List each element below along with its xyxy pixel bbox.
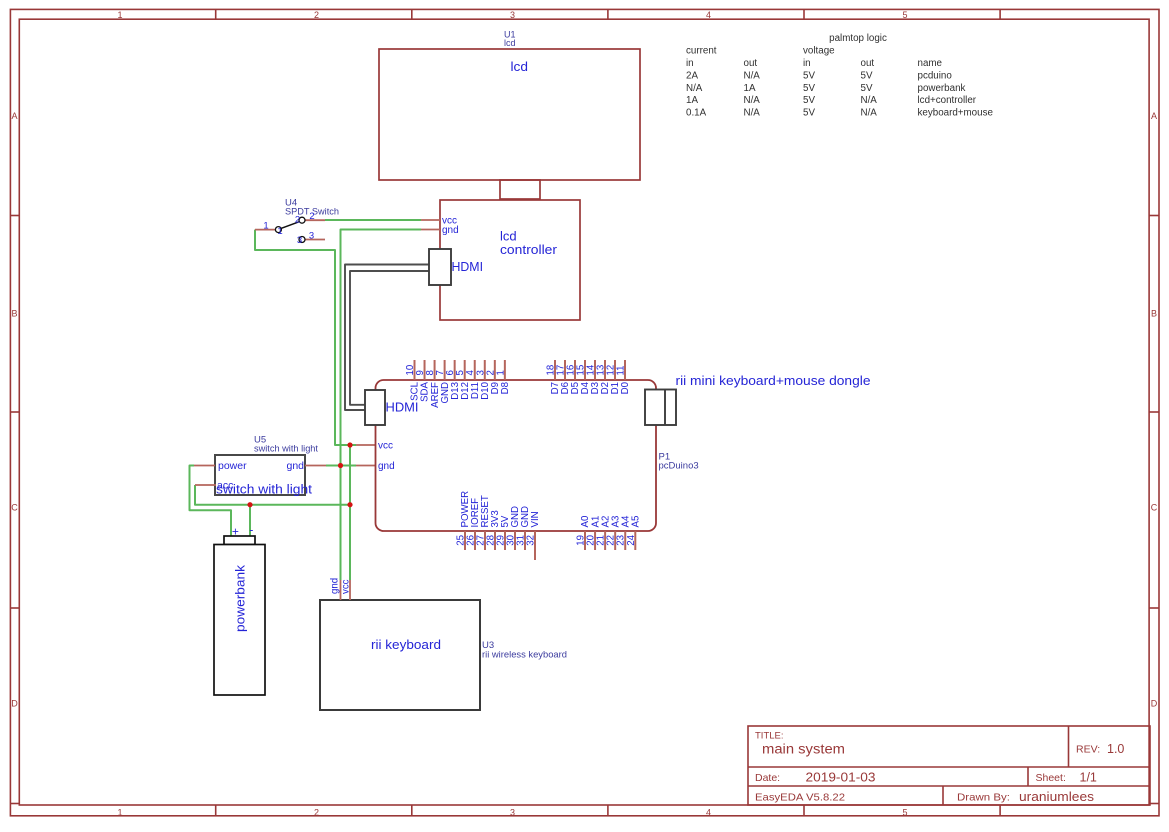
svg-text:D0: D0 xyxy=(620,381,631,394)
svg-text:TITLE:: TITLE: xyxy=(755,731,784,742)
svg-text:5V: 5V xyxy=(803,70,815,81)
svg-text:1: 1 xyxy=(117,808,122,818)
svg-text:N/A: N/A xyxy=(861,108,878,119)
svg-text:N/A: N/A xyxy=(861,95,878,106)
svg-text:1A: 1A xyxy=(686,95,698,106)
svg-text:gnd: gnd xyxy=(378,461,395,472)
svg-text:VIN: VIN xyxy=(530,511,541,527)
svg-text:rii wireless keyboard: rii wireless keyboard xyxy=(482,650,567,661)
svg-text:N/A: N/A xyxy=(744,70,761,81)
svg-text:EasyEDA V5.8.22: EasyEDA V5.8.22 xyxy=(755,792,845,804)
svg-text:N/A: N/A xyxy=(686,83,703,94)
svg-text:in: in xyxy=(686,58,694,69)
svg-text:rii mini keyboard+mouse dongle: rii mini keyboard+mouse dongle xyxy=(676,373,871,388)
svg-text:name: name xyxy=(918,58,943,69)
svg-text:2: 2 xyxy=(309,211,314,222)
svg-text:2: 2 xyxy=(314,10,319,20)
svg-text:1A: 1A xyxy=(744,83,756,94)
svg-text:4: 4 xyxy=(706,10,711,20)
svg-text:1.0: 1.0 xyxy=(1107,742,1124,756)
svg-text:5V: 5V xyxy=(861,70,873,81)
svg-text:current: current xyxy=(686,46,717,57)
svg-text:powerbank: powerbank xyxy=(233,564,248,632)
svg-text:out: out xyxy=(861,58,875,69)
svg-text:palmtop logic: palmtop logic xyxy=(829,33,887,44)
svg-text:B: B xyxy=(11,309,17,319)
svg-text:Date:: Date: xyxy=(755,772,780,784)
svg-text:5V: 5V xyxy=(803,83,815,94)
svg-text:gnd: gnd xyxy=(287,460,305,472)
svg-text:vcc: vcc xyxy=(341,579,352,594)
svg-text:5V: 5V xyxy=(861,83,873,94)
svg-text:vcc: vcc xyxy=(378,441,393,452)
svg-text:switch with light: switch with light xyxy=(216,482,312,497)
svg-text:1: 1 xyxy=(277,226,282,237)
svg-text:+: + xyxy=(232,525,239,539)
svg-text:11: 11 xyxy=(616,365,627,375)
svg-text:5V: 5V xyxy=(803,108,815,119)
svg-text:uraniumlees: uraniumlees xyxy=(1019,790,1094,804)
svg-text:D: D xyxy=(1151,698,1158,708)
svg-text:2: 2 xyxy=(295,215,300,226)
svg-text:pcDuino3: pcDuino3 xyxy=(659,461,699,472)
svg-text:3: 3 xyxy=(510,10,515,20)
svg-text:5: 5 xyxy=(902,808,907,818)
svg-text:Sheet:: Sheet: xyxy=(1036,772,1066,784)
svg-text:2: 2 xyxy=(314,808,319,818)
svg-text:2019-01-03: 2019-01-03 xyxy=(806,771,876,785)
svg-text:2A: 2A xyxy=(686,70,698,81)
svg-text:A: A xyxy=(1151,111,1157,121)
svg-text:D8: D8 xyxy=(500,382,511,394)
svg-text:C: C xyxy=(1151,503,1158,513)
svg-text:in: in xyxy=(803,58,811,69)
svg-text:N/A: N/A xyxy=(744,108,761,119)
svg-text:N/A: N/A xyxy=(744,95,761,106)
svg-text:main system: main system xyxy=(762,742,845,757)
svg-text:0.1A: 0.1A xyxy=(686,108,707,119)
svg-text:REV:: REV: xyxy=(1076,744,1100,756)
svg-text:keyboard+mouse: keyboard+mouse xyxy=(918,108,994,119)
svg-text:24: 24 xyxy=(626,534,637,545)
svg-text:3: 3 xyxy=(510,808,515,818)
svg-text:powerbank: powerbank xyxy=(918,83,966,94)
svg-text:voltage: voltage xyxy=(803,46,835,57)
svg-text:gnd: gnd xyxy=(330,578,341,594)
svg-text:gnd: gnd xyxy=(442,225,459,236)
svg-text:D: D xyxy=(11,698,18,708)
svg-text:32: 32 xyxy=(526,535,537,546)
svg-text:4: 4 xyxy=(706,808,711,818)
svg-text:3: 3 xyxy=(309,231,314,242)
svg-text:5: 5 xyxy=(902,10,907,20)
svg-text:rii keyboard: rii keyboard xyxy=(371,637,441,652)
svg-text:Drawn By:: Drawn By: xyxy=(957,792,1010,804)
svg-text:controller: controller xyxy=(500,242,558,257)
svg-text:switch with light: switch with light xyxy=(254,444,318,455)
svg-text:out: out xyxy=(744,58,758,69)
svg-text:1/1: 1/1 xyxy=(1080,771,1097,785)
svg-text:1: 1 xyxy=(495,370,506,375)
svg-text:B: B xyxy=(1151,309,1157,319)
svg-text:pcduino: pcduino xyxy=(918,70,953,81)
svg-text:C: C xyxy=(11,503,18,513)
svg-text:1: 1 xyxy=(117,10,122,20)
svg-text:-: - xyxy=(249,523,253,537)
svg-text:A5: A5 xyxy=(631,516,642,528)
svg-text:3: 3 xyxy=(297,235,302,246)
svg-text:lcd: lcd xyxy=(511,59,529,74)
svg-text:1: 1 xyxy=(263,221,268,232)
svg-text:lcd+controller: lcd+controller xyxy=(918,95,977,106)
svg-text:HDMI: HDMI xyxy=(452,259,484,274)
svg-text:lcd: lcd xyxy=(504,38,516,48)
svg-text:A: A xyxy=(11,111,17,121)
svg-text:power: power xyxy=(218,460,247,472)
svg-text:5V: 5V xyxy=(803,95,815,106)
